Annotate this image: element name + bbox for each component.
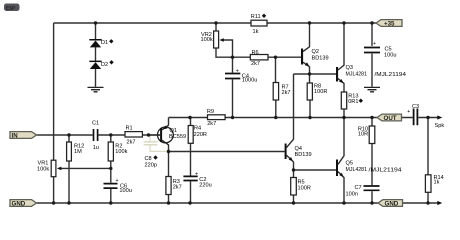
svg-text:2k7: 2k7 — [207, 121, 216, 127]
svg-text:MJL4281: MJL4281 — [346, 167, 368, 173]
svg-text:100n: 100n — [346, 191, 358, 197]
svg-text:220u: 220u — [199, 183, 211, 189]
svg-text:Q5: Q5 — [346, 161, 353, 167]
svg-text:MJL4281: MJL4281 — [346, 71, 368, 77]
svg-text:C5: C5 — [385, 46, 392, 52]
svg-text:100u: 100u — [119, 188, 131, 194]
svg-text:R9: R9 — [207, 109, 214, 115]
svg-text:Spk: Spk — [435, 123, 445, 129]
svg-text:10R: 10R — [358, 132, 368, 138]
svg-text:0R1: 0R1 — [348, 99, 358, 105]
svg-text:1k: 1k — [434, 180, 440, 186]
svg-text:1M: 1M — [74, 149, 82, 155]
svg-text:+: + — [236, 69, 239, 75]
svg-text:100k: 100k — [201, 37, 213, 43]
svg-text:ESP: ESP — [6, 6, 15, 11]
svg-text:R1: R1 — [126, 126, 133, 132]
svg-text:1000u: 1000u — [242, 78, 258, 84]
svg-text:100u: 100u — [384, 53, 396, 59]
svg-text:2k7: 2k7 — [282, 90, 291, 96]
svg-text:D2: D2 — [101, 62, 108, 68]
svg-text:Q4: Q4 — [295, 146, 302, 152]
svg-text:C1: C1 — [92, 121, 99, 127]
svg-text:+: + — [407, 109, 410, 115]
svg-text:GND: GND — [12, 200, 26, 207]
svg-text:BC559: BC559 — [169, 134, 186, 140]
svg-text:C8: C8 — [145, 156, 152, 162]
svg-text:1u: 1u — [93, 145, 99, 151]
svg-text:R4: R4 — [194, 125, 201, 131]
svg-text:D1: D1 — [101, 40, 108, 46]
svg-text:+: + — [373, 41, 376, 47]
svg-text:C3: C3 — [412, 104, 419, 110]
svg-text:2k7: 2k7 — [127, 139, 136, 145]
svg-text:100R: 100R — [314, 89, 327, 95]
svg-text:BD139: BD139 — [295, 152, 312, 158]
svg-text:GND: GND — [385, 200, 399, 207]
svg-text:+: + — [116, 178, 119, 184]
svg-text:220R: 220R — [194, 132, 207, 138]
svg-text:+35: +35 — [384, 20, 395, 27]
svg-text:/MJL21194: /MJL21194 — [375, 72, 407, 78]
svg-text:OUT: OUT — [384, 115, 397, 122]
svg-text:100k: 100k — [115, 149, 127, 155]
svg-text:2k7: 2k7 — [173, 185, 182, 191]
svg-text:Q3: Q3 — [346, 65, 353, 71]
svg-text:/MJL21194: /MJL21194 — [369, 168, 402, 174]
svg-text:1k: 1k — [253, 29, 259, 35]
svg-text:C7: C7 — [355, 185, 362, 191]
svg-text:2k7: 2k7 — [251, 61, 260, 67]
svg-text:+: + — [195, 171, 198, 177]
svg-text:220p: 220p — [145, 162, 157, 168]
svg-text:100R: 100R — [298, 185, 311, 191]
svg-text:IN: IN — [12, 132, 19, 139]
svg-text:100k: 100k — [37, 167, 49, 173]
svg-text:BD139: BD139 — [312, 55, 329, 61]
svg-text:R6: R6 — [252, 50, 259, 56]
svg-text:R11: R11 — [251, 14, 261, 20]
svg-text:Q2: Q2 — [312, 49, 319, 55]
